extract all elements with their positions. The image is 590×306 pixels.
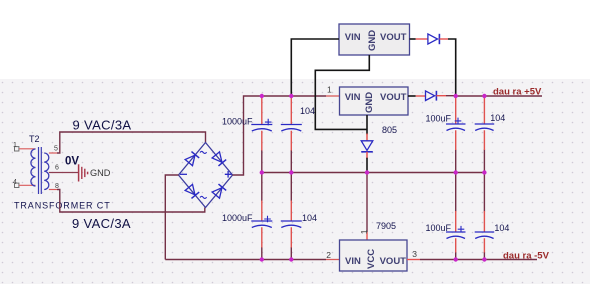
svg-text:1000uF: 1000uF [222, 213, 253, 223]
regulator U3 7905 (bottom) [340, 240, 408, 271]
svg-text:805: 805 [382, 125, 397, 135]
wire negative bottom rail [165, 259, 326, 261]
svg-text:9 VAC/3A: 9 VAC/3A [72, 216, 131, 231]
svg-text:1: 1 [359, 229, 369, 234]
pin 4 stub [19, 184, 36, 186]
capacitor C8 104 (bottom right) [475, 232, 495, 239]
schematic grid background [0, 79, 590, 284]
junction dots [260, 94, 487, 262]
svg-text:VIN: VIN [345, 92, 361, 103]
capacitor C3 100uF (top right) [446, 118, 466, 131]
svg-text:VOUT: VOUT [380, 256, 407, 267]
pin 1 stub [19, 148, 36, 150]
svg-text:1: 1 [13, 142, 17, 149]
wire ground to U3 pin 1 [366, 173, 368, 233]
svg-text:T2: T2 [29, 134, 40, 144]
svg-text:1: 1 [327, 85, 332, 95]
capacitor C1 1000uF (top) [251, 119, 272, 131]
pin 2 stub of U3 [326, 259, 340, 261]
svg-text:dau ra -5V: dau ra -5V [503, 251, 550, 262]
wire U2 VOUT to diode D4 [408, 95, 416, 97]
primary coil [31, 149, 36, 186]
wire U2 GND down (black) [366, 115, 368, 134]
wire U1 VIN (black) [291, 39, 339, 96]
svg-text:6: 6 [55, 165, 59, 172]
pin 1 stub of U2 [326, 95, 340, 97]
capacitor C1 1000uF vertical wire [261, 150, 263, 260]
positive +5V rail [456, 95, 542, 97]
bridge plus mark [225, 171, 232, 178]
diode D2 (top) [428, 34, 440, 44]
wire U1 GND return (black) [315, 55, 369, 129]
svg-text:104: 104 [302, 213, 317, 223]
wire U1 VOUT to diode D2 (black) [410, 38, 416, 40]
wire pin5 to bridge AC top [57, 132, 206, 153]
svg-text:5: 5 [54, 146, 58, 153]
svg-text:VIN: VIN [345, 256, 361, 267]
svg-text:GND: GND [364, 92, 375, 113]
svg-text:VIN: VIN [345, 32, 361, 43]
bridge diode upper-left [185, 152, 199, 166]
svg-text:4: 4 [13, 179, 17, 186]
negative output rail [420, 259, 537, 261]
secondary coil [44, 153, 49, 190]
pin 8 stub [49, 189, 57, 191]
core lines [39, 147, 42, 194]
bridge diode upper-right [212, 152, 226, 166]
svg-text:100uF: 100uF [425, 113, 451, 123]
svg-text:TRANSFORMER CT: TRANSFORMER CT [14, 201, 111, 211]
capacitor C7 100uF (bottom right) [446, 226, 466, 239]
bridge AC mark top [200, 151, 207, 153]
bridge minus mark [180, 173, 187, 175]
red pin segments of right caps [456, 96, 485, 253]
regulator U2 7805 (middle) [340, 87, 409, 115]
capacitor C2 104 vertical wire [290, 150, 292, 260]
U3 VOUT stub [407, 259, 420, 261]
wire bridge plus up to unregulated positive rail [233, 96, 327, 175]
bridge rectifier D1 [179, 143, 233, 208]
svg-text:9 VAC/3A: 9 VAC/3A [73, 118, 132, 133]
svg-text:0V: 0V [65, 156, 79, 168]
bridge diamond [179, 143, 233, 208]
svg-text:2: 2 [326, 250, 331, 260]
capacitor C5 1000uF (bottom) [251, 216, 272, 228]
pin 5 stub [49, 152, 57, 154]
svg-text:1000uF: 1000uF [222, 116, 253, 126]
ground mid rail [262, 172, 485, 174]
bridge AC mark bottom [200, 196, 207, 198]
capacitor C4 104 vertical wire [483, 150, 485, 260]
svg-text:104: 104 [490, 113, 505, 123]
wire pin8 to bridge AC bottom [57, 190, 205, 213]
svg-text:3: 3 [412, 249, 417, 259]
wire diode D2 down to +5V rail (black) [448, 39, 456, 96]
diode D4 (middle row) [426, 91, 437, 101]
capacitor C4 104 (top right) [475, 124, 495, 131]
capacitor C3 100uF vertical wire [455, 150, 457, 260]
pin 1 pad [15, 147, 19, 151]
svg-text:VCC: VCC [366, 249, 377, 269]
capacitor C6 104 (bottom) [281, 221, 302, 228]
diode D3 (middle, vertical) [366, 134, 368, 141]
svg-text:dau ra +5V: dau ra +5V [493, 87, 542, 98]
svg-text:7905: 7905 [376, 221, 396, 231]
svg-text:100uF: 100uF [425, 223, 451, 233]
svg-text:GND: GND [367, 30, 378, 51]
svg-text:VOUT: VOUT [380, 32, 407, 43]
capacitor C2 104 (top) [281, 125, 302, 132]
svg-text:104: 104 [494, 223, 509, 233]
red pin segments of left caps [262, 96, 292, 248]
ground GND symbol [79, 164, 88, 181]
svg-text:GND: GND [90, 168, 111, 178]
bridge diode lower-right [212, 184, 226, 198]
pin 4 pad [15, 183, 19, 187]
pin 1 number of U3 (rotated) [359, 229, 369, 234]
wire bridge minus to negative rail [165, 175, 178, 260]
bridge diode lower-left [185, 184, 199, 198]
regulator U1 7805 (top) [339, 24, 410, 55]
svg-text:VOUT: VOUT [380, 92, 407, 103]
transformer T2 [13, 134, 78, 194]
svg-text:104: 104 [300, 106, 315, 116]
pin 6 stub [49, 172, 78, 174]
